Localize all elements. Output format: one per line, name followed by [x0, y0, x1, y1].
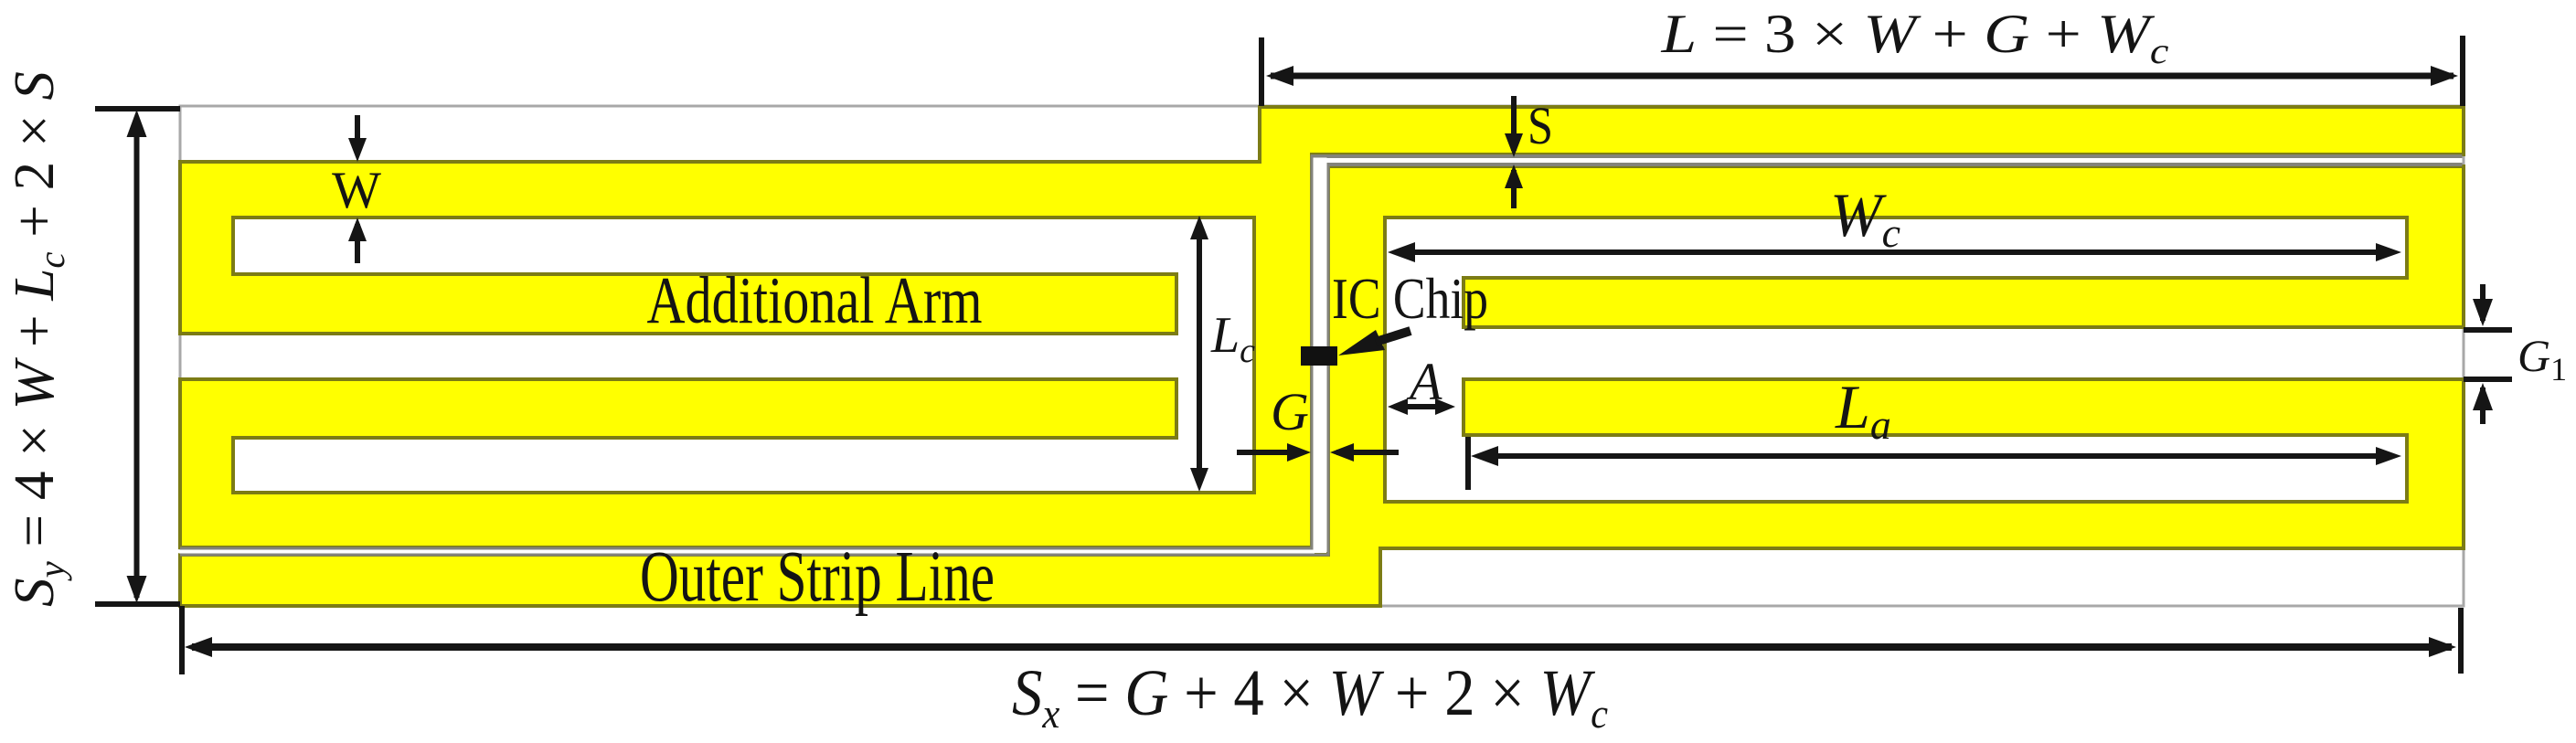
net B: right comb structure + outer strip line (yellow trace): [180, 166, 2464, 606]
feed gap G channel right border (gray): [1327, 166, 1330, 556]
svg-text:IC Chip: IC Chip: [1332, 267, 1488, 331]
dimension G1 tick bottom: [2464, 377, 2512, 382]
svg-text:Additional Arm: Additional Arm: [647, 263, 983, 337]
dimension Lc arrowhead up: [1190, 216, 1208, 239]
dimension Sx arrowhead left: [185, 637, 212, 657]
dimension Sy arrowhead up: [127, 110, 147, 137]
dimension La double arrow: [1478, 453, 2381, 459]
dimension La tick: [1465, 437, 1471, 490]
dimension G arrow right: [1237, 450, 1301, 455]
svg-text:G: G: [1271, 382, 1309, 441]
dimension Sx arrowhead right: [2429, 637, 2456, 657]
substrate outline Sx x Sy: [180, 106, 2464, 606]
feed gap G channel white: [1314, 158, 1327, 553]
svg-text:Outer Strip Line: Outer Strip Line: [640, 537, 995, 617]
svg-text:Sy = 4 × W + Lc + 2 × S: Sy = 4 × W + Lc + 2 × S: [4, 71, 72, 607]
dimension G1 arrow up: [2480, 387, 2486, 424]
feed gap G channel left border (gray): [1311, 155, 1314, 550]
svg-text:L = 3 × W + G + Wc: L = 3 × W + G + Wc: [1660, 4, 2168, 71]
dimension Sx tick right: [2458, 608, 2464, 674]
dimension Sx arrow line: [192, 643, 2452, 651]
dimension A double arrow: [1395, 404, 1448, 409]
dimension Lc arrow line: [1197, 223, 1202, 484]
gap S channel white: [1314, 158, 2462, 163]
dimension L arrowhead right: [2431, 66, 2458, 86]
IC chip: [1301, 346, 1337, 366]
svg-text:W: W: [332, 162, 381, 219]
IC chip pointer arrow: [1338, 330, 1385, 356]
dimension L arrowhead left: [1266, 66, 1293, 86]
dimension Sy bracket top: [95, 106, 180, 111]
gap S channel bottom border (gray): [1327, 163, 2463, 166]
dimension Sx tick left: [179, 606, 185, 674]
net A: left meander + top feed bar (yellow trace): [180, 107, 2464, 547]
dimension L tick right: [2460, 36, 2465, 106]
dimension Sy arrow line: [134, 117, 140, 598]
svg-text:Sx = G + 4 × W + 2 × Wc: Sx = G + 4 × W + 2 × Wc: [1012, 656, 1608, 737]
dimension G arrow left: [1336, 450, 1399, 455]
dimension Sy arrowhead down: [127, 576, 147, 603]
bottom S channel top border (gray): [180, 547, 1314, 550]
dimension S arrow down: [1511, 96, 1517, 151]
dimension L tick left: [1259, 37, 1264, 106]
dimension G1 arrow down: [2480, 284, 2486, 321]
bottom S channel bottom border (gray): [180, 554, 1330, 557]
dimension W arrow up: [355, 224, 360, 263]
bottom S channel white: [179, 550, 1315, 554]
dimension S arrow up: [1511, 170, 1517, 208]
dimension Sy bracket bottom: [95, 601, 180, 607]
dimension Wc double arrow: [1395, 249, 2380, 255]
dimension G1 tick top: [2464, 327, 2512, 333]
dimension Lc arrowhead down: [1190, 468, 1208, 492]
dimension L arrow line: [1271, 73, 2454, 80]
dimension W arrow down: [355, 115, 360, 154]
svg-text:S: S: [1528, 96, 1553, 155]
gap S channel top border (gray): [1311, 154, 2463, 158]
svg-text:A: A: [1406, 352, 1442, 411]
